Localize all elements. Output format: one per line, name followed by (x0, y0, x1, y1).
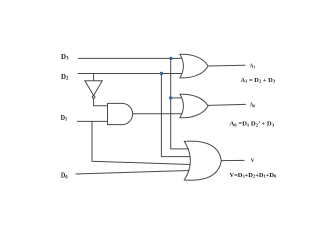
wire AND output to OR2 input (133, 113, 182, 115)
wire D3 branch down to OR3 (171, 58, 189, 148)
OR gate OR3 (V) (184, 141, 221, 180)
wire OR2 output A0 (208, 104, 246, 105)
svg-text:D0: D0 (61, 172, 68, 181)
wire inverter input stub (93, 74, 95, 81)
wire D3 branch to OR2 input (171, 97, 182, 99)
wire D3 horizontal (78, 57, 182, 59)
junction dot D3 on D3 line (169, 57, 172, 60)
inverter U1 bubble (92, 96, 95, 99)
svg-text:A1 = D2 + D3: A1 = D2 + D3 (241, 77, 276, 84)
wire D1 branch down and to OR3 (92, 121, 191, 164)
wire OR1 output A1 (208, 64, 246, 67)
svg-text:A0 =D1 D2’ + D3: A0 =D1 D2’ + D3 (230, 121, 275, 128)
svg-text:D1: D1 (61, 114, 68, 123)
wire D1 horizontal (77, 120, 107, 122)
OR gate OR1 (A1) (180, 54, 208, 78)
wire D0 sloped to OR3 (76, 171, 190, 175)
junction dot D3 branch at OR2 input (169, 96, 172, 99)
inverter U1 triangle (85, 81, 102, 96)
svg-text:D2: D2 (61, 73, 69, 82)
wire D2 branch down to OR3 (161, 74, 190, 157)
wire OR3 output V (222, 159, 245, 161)
svg-text:A1: A1 (250, 64, 255, 70)
svg-text:V: V (251, 159, 255, 164)
svg-text:V=D3+D2+D1+D0: V=D3+D2+D1+D0 (230, 172, 277, 179)
wire D2 horizontal (78, 73, 182, 75)
AND gate U2 (108, 103, 133, 124)
svg-text:A0: A0 (250, 103, 255, 109)
OR gate OR2 (A0) (180, 94, 208, 118)
wire inverter output to AND input (94, 98, 108, 105)
svg-text:D3: D3 (61, 53, 69, 62)
junction dot D2 on D2 line (160, 72, 163, 75)
